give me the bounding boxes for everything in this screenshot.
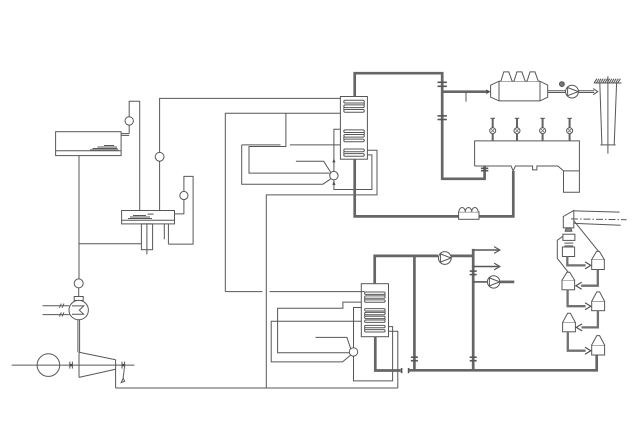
pipe: long line A to exchanger E1 top coil	[160, 98, 345, 210]
flange bars under feed box	[564, 243, 573, 246]
tank T1	[56, 132, 122, 156]
flange pair on header	[470, 357, 477, 361]
pipe: feed line into E2 (crossover gap at big loop)	[225, 291, 364, 293]
cooler structure body	[475, 141, 580, 192]
pipe: heavy feed to E2 from cooler water line	[375, 256, 438, 284]
vessel T2	[122, 211, 175, 224]
duct: CY3 to CY4 with arrow	[576, 311, 598, 331]
flange pair at cooler drop leg	[481, 168, 488, 170]
vent stub	[465, 92, 467, 102]
pipe: stub line into mixer top	[296, 161, 331, 172]
kiln hood	[563, 210, 574, 231]
pipe: blower side lines with break symbols	[43, 304, 70, 317]
feed box 1	[563, 234, 575, 240]
fan circle F1	[37, 354, 60, 377]
pipe: heavy vertical distribution header	[472, 249, 475, 370]
heat exchanger E2	[361, 284, 388, 337]
pipe: loop B from E1 down to E2 (big loop)	[266, 150, 377, 388]
duct: riser from box1 to cyclone 2	[557, 236, 568, 272]
valve circle V1	[125, 117, 133, 125]
pipe: C2 bottom return loop A2	[354, 327, 393, 381]
pipe: heavy steam line E1 top to right	[355, 73, 485, 179]
duct: hood riser to cyclone 1	[574, 221, 599, 252]
pipe: gauge loop on T2	[168, 176, 193, 244]
blower neck	[74, 288, 83, 301]
valve circle V4 above blower	[74, 279, 83, 288]
duct: CY4 to CY5 with arrow	[568, 332, 591, 354]
cooler valve 3	[540, 118, 546, 141]
stack hatch marks	[594, 79, 620, 83]
duct: CY2 to CY3 with arrow	[568, 290, 591, 310]
cyclone CY2	[562, 272, 575, 290]
pipe: bottom long line to loop B2	[116, 387, 398, 389]
pipe: drum to pump P1 double line	[548, 91, 566, 93]
valve circle V3 on gauge loop	[180, 191, 188, 199]
pump P1	[566, 85, 579, 98]
valve V5 on centerline	[70, 362, 73, 369]
mixer circle C1	[330, 171, 338, 179]
pipe: blower discharge double line	[78, 320, 80, 353]
E2 coil middle group	[365, 309, 386, 323]
instrument dot	[560, 82, 565, 87]
flange pair lower on heavy riser	[438, 116, 447, 120]
duct: box2 to CY1 with arrow	[567, 257, 591, 269]
pipe: tank T1 bottom down to blower	[78, 156, 80, 279]
E1 coil bottom group	[344, 149, 365, 156]
pipe: C1 bottom return loop A with arrow	[332, 155, 372, 190]
pipe: heavy branch down at 414	[413, 256, 416, 370]
pipe: heavy E1 bottom to coil heater to cooler	[355, 159, 514, 216]
pipe: V1 up and over to vessel T2	[129, 101, 140, 210]
flange pair small on header upper	[470, 271, 477, 275]
pipe: loop B2 right edge	[389, 331, 398, 388]
pipe: heavy branch arrow into drum D1	[442, 89, 490, 94]
E2 coil top group	[365, 292, 386, 302]
flange pair upper on heavy riser	[438, 82, 447, 86]
pump P3	[438, 252, 451, 265]
cooler valve 1	[490, 118, 496, 141]
pipe: cross line to downcomer	[79, 243, 141, 245]
vessel T2 downcomer stub	[141, 224, 152, 255]
pipe: C2 up into E2 middle coil	[354, 308, 362, 348]
cyclone CY3	[592, 292, 605, 311]
valve circle V2 on line A	[155, 152, 164, 161]
pipe: E2 heavy drain with flanged joint	[375, 337, 408, 374]
vessel T2 level marks	[128, 214, 154, 218]
feed box 2	[562, 247, 574, 257]
pipe: header arrow 2	[473, 263, 500, 270]
cooler valve 4	[567, 118, 573, 141]
pipe: heavy main bottom line from cyclone C5	[409, 355, 597, 370]
cooler valve 2	[514, 118, 520, 141]
vessel T2 right nozzle	[164, 224, 168, 244]
drum D1 humps	[501, 72, 538, 81]
pipe: inner loop top assembly	[249, 113, 330, 173]
stack S1	[594, 76, 622, 153]
mixer circle C2	[349, 348, 357, 356]
duct: CY1 to CY2 with arrow	[576, 270, 598, 290]
pipe: inner loop bottom assembly with jog	[278, 302, 362, 353]
pump P2 on header	[473, 276, 514, 288]
blower machine M1	[69, 300, 88, 319]
flange pair on 414 branch	[411, 357, 418, 361]
pipe: fan centerline	[12, 364, 135, 366]
kiln shell lines	[571, 211, 627, 225]
cyclone CY5	[592, 336, 605, 355]
diffuser cone	[79, 352, 116, 388]
E1 coil middle group	[344, 130, 365, 142]
pipe: pump P1 to stack with arrow	[578, 89, 597, 95]
heat exchanger E1	[340, 97, 367, 160]
drum D1 (vessel with humps)	[491, 81, 548, 101]
cyclone CY4	[563, 313, 576, 332]
E2 coil bottom group	[365, 325, 386, 332]
pipe: tank outlet to valve V1	[121, 117, 129, 135]
coil heater H1	[459, 207, 479, 219]
pipe: C1 up into E1 middle coil with arrow	[332, 129, 340, 171]
pipe: long line B to exchanger E1 top coil	[225, 113, 344, 291]
cyclone CY1	[592, 251, 605, 269]
valve V6 with drain flag	[121, 362, 124, 383]
pipe: outer loop bottom assembly	[271, 321, 361, 362]
pipe: stub line into mixer C2	[316, 337, 351, 348]
tank T1 level marks	[90, 146, 119, 150]
pipe: header top arrow 1	[473, 247, 500, 254]
E1 coil top group	[344, 100, 365, 112]
pipe: outer loop top edge (with crossover gap)	[242, 145, 341, 184]
